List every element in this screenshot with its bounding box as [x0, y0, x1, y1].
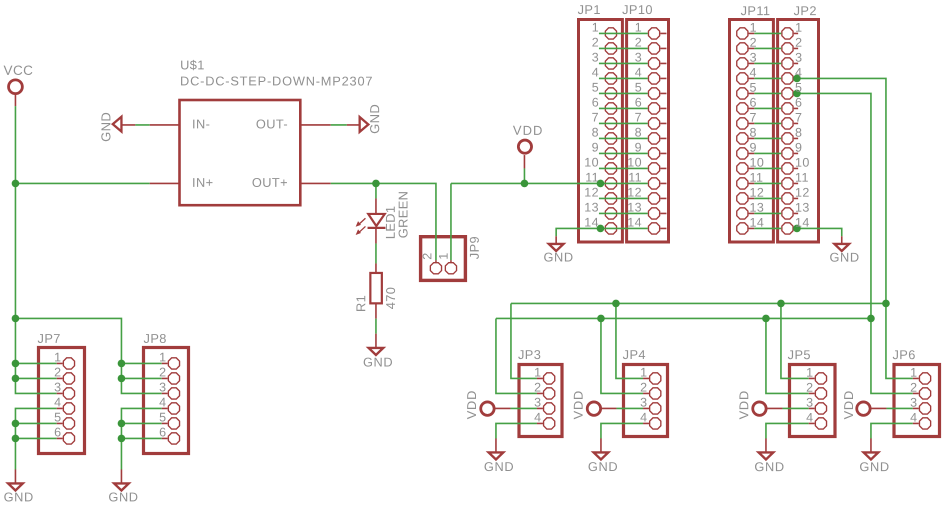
- wire JP4 pin2 riser: [601, 318, 643, 393]
- node VDD junction: [521, 180, 529, 188]
- wire OUT+ pin stub (red): [301, 182, 331, 184]
- pin JP6.1: [919, 373, 930, 384]
- wire GND stub below JP1 (red): [555, 236, 557, 244]
- wire VCC pin stub (red): [14, 93, 16, 106]
- pin JP1.9: [605, 148, 616, 159]
- pin JP10.11: [648, 178, 659, 189]
- wire VDD symbol to rail: [523, 168, 525, 183]
- svg-text:1: 1: [635, 21, 642, 35]
- pin JP2.9: [782, 148, 793, 159]
- pin JP2.2: [782, 43, 793, 54]
- svg-text:1: 1: [795, 21, 802, 35]
- pin JP10.6: [648, 103, 659, 114]
- svg-text:1: 1: [640, 366, 647, 380]
- pin JP11.5: [737, 88, 748, 99]
- svg-text:GND: GND: [98, 112, 113, 142]
- wire JP11.4 to JP2.4: [749, 77, 755, 79]
- connector JP9 box: [421, 237, 466, 281]
- node VCC-IN+ junction: [12, 180, 20, 188]
- wire VDD symbol stub (red): [523, 155, 525, 168]
- svg-text:2: 2: [534, 381, 541, 395]
- wire GND symbol stub at OUT- (red): [347, 124, 360, 126]
- svg-text:R1: R1: [353, 295, 368, 312]
- wire OUT- pin stub (red): [301, 124, 331, 126]
- wire LED cathode stub (red): [375, 228, 377, 244]
- pin JP1.12: [605, 193, 616, 204]
- svg-text:5: 5: [54, 410, 61, 424]
- pin JP10.4: [648, 73, 659, 84]
- wire JP1.6 to JP10.6: [599, 107, 648, 109]
- pin JP2.7: [782, 118, 793, 129]
- wire JP3 pin1 riser: [511, 303, 537, 378]
- svg-text:GND: GND: [363, 354, 393, 369]
- svg-text:3: 3: [806, 396, 813, 410]
- pin JP9.2: [430, 263, 441, 274]
- pin JP2.13: [782, 208, 793, 219]
- node JP8.5 junction: [118, 420, 126, 428]
- wire R1 bottom stub (red): [375, 303, 377, 318]
- svg-text:GND: GND: [754, 459, 784, 474]
- wire JP7 pin1 net: [15, 362, 56, 364]
- svg-text:9: 9: [750, 141, 757, 155]
- pin JP2.11: [782, 178, 793, 189]
- svg-text:VDD: VDD: [841, 390, 856, 419]
- pin JP7.5: [63, 418, 74, 429]
- pin JP10.1: [648, 28, 659, 39]
- pin JP5.3: [815, 403, 826, 414]
- pin JP11.1: [737, 28, 748, 39]
- wire VDD to JP6 pin3: [869, 407, 886, 409]
- pin JP8.3: [168, 388, 179, 399]
- wire JP9 pin1 to VDD rail: [450, 183, 452, 260]
- wire R1 to GND net: [375, 319, 377, 334]
- ground symbol under JP2: [834, 244, 849, 251]
- wire JP1.9 to JP10.9: [599, 152, 648, 154]
- svg-text:1: 1: [910, 366, 917, 380]
- node JP7.2 junction: [12, 375, 20, 383]
- wire LED branch: [375, 183, 377, 198]
- svg-text:8: 8: [750, 126, 757, 140]
- wire JP5 pin2 riser: [766, 318, 809, 393]
- pin JP8.6: [168, 433, 179, 444]
- svg-text:6: 6: [750, 96, 757, 110]
- connector JP1 box: [579, 20, 623, 243]
- svg-text:11: 11: [585, 171, 599, 185]
- pin JP1.11: [605, 178, 616, 189]
- svg-text:JP11: JP11: [741, 3, 771, 18]
- svg-text:GND: GND: [588, 459, 618, 474]
- node JP7.1 junction: [12, 360, 20, 368]
- pin JP1.6: [605, 103, 616, 114]
- pin JP8.5: [168, 418, 179, 429]
- pin JP3.1: [544, 373, 555, 384]
- wire JP8 pin3 stub: [162, 392, 168, 394]
- wire JP8 pin2 net: [121, 377, 161, 379]
- pin JP1.1: [605, 28, 616, 39]
- svg-text:2: 2: [54, 365, 61, 379]
- node JP8.6 junction: [118, 435, 126, 443]
- node JP2.14 junction: [793, 225, 801, 233]
- pin JP2.1: [782, 28, 793, 39]
- pin JP7.4: [63, 403, 74, 414]
- wire VCC vertical rail: [15, 106, 56, 393]
- pin JP8.2: [168, 373, 179, 384]
- svg-text:2: 2: [420, 252, 434, 259]
- wire JP7 GND stub (red): [14, 469, 16, 483]
- svg-text:OUT-: OUT-: [256, 116, 288, 131]
- svg-text:GND: GND: [367, 104, 382, 134]
- resistor R1 body: [370, 273, 382, 303]
- svg-text:5: 5: [750, 81, 757, 95]
- svg-text:OUT+: OUT+: [252, 175, 288, 190]
- svg-text:4: 4: [54, 395, 61, 409]
- node JP2.4 junction: [793, 75, 801, 83]
- svg-text:10: 10: [627, 156, 642, 170]
- svg-text:470: 470: [383, 287, 398, 310]
- supply VDD at JP3: [481, 402, 494, 415]
- connector JP6 box: [894, 365, 940, 437]
- supply VDD at JP5: [753, 402, 766, 415]
- pin JP1.13: [605, 208, 616, 219]
- wire JP8 pin1 net: [121, 362, 161, 364]
- node bus1-JP6 junction: [882, 300, 890, 308]
- svg-text:5: 5: [159, 410, 166, 424]
- wire JP8 pin4-6 ground rail: [121, 408, 161, 469]
- pin JP11.11: [737, 178, 748, 189]
- svg-text:GND: GND: [4, 489, 34, 504]
- svg-text:14: 14: [584, 216, 599, 230]
- svg-text:JP5: JP5: [788, 347, 811, 362]
- svg-text:JP2: JP2: [794, 3, 817, 18]
- pin JP1.8: [605, 133, 616, 144]
- ground symbol under JP6: [864, 452, 879, 459]
- wire JP1.11 to JP10.11: [599, 182, 648, 184]
- svg-text:2: 2: [592, 36, 599, 50]
- svg-text:IN+: IN+: [192, 175, 213, 190]
- wire GND stub below JP2 (red): [841, 236, 843, 244]
- LED LED1 GREEN symbol: [368, 214, 385, 226]
- wire JP9 pin1 stub (red): [450, 260, 452, 262]
- wire JP7 pin3 stub: [57, 392, 63, 394]
- svg-text:14: 14: [795, 216, 810, 230]
- svg-text:JP8: JP8: [144, 331, 167, 346]
- svg-text:GND: GND: [108, 489, 138, 504]
- svg-text:4: 4: [795, 66, 802, 80]
- ground symbol left of U$1: [113, 117, 122, 132]
- connector JP10 box: [627, 20, 669, 243]
- wire JP6 pin4 to GND: [871, 423, 913, 438]
- ground symbol under JP3: [489, 452, 504, 459]
- svg-text:1: 1: [806, 366, 813, 380]
- wire GND symbol stub under R1 (red): [375, 334, 377, 348]
- pin JP5.2: [815, 388, 826, 399]
- wire JP11.10 to JP2.10: [749, 167, 755, 169]
- pin JP11.13: [737, 208, 748, 219]
- pin JP10.9: [648, 148, 659, 159]
- pin JP4.3: [650, 403, 661, 414]
- connector JP2 box: [778, 20, 819, 243]
- svg-text:12: 12: [795, 186, 810, 200]
- ground symbol under JP8: [114, 483, 129, 490]
- pin JP7.2: [63, 373, 74, 384]
- svg-text:14: 14: [750, 216, 765, 230]
- wire JP11.1 to JP2.1: [749, 32, 755, 34]
- node bus2-JP6 junction: [867, 315, 875, 323]
- pin JP2.3: [782, 58, 793, 69]
- pin JP10.2: [648, 43, 659, 54]
- svg-text:8: 8: [635, 126, 642, 140]
- ground symbol under JP7: [8, 483, 23, 490]
- svg-text:13: 13: [750, 201, 765, 215]
- pin JP11.8: [737, 133, 748, 144]
- pin JP4.2: [650, 388, 661, 399]
- pin JP11.10: [737, 163, 748, 174]
- svg-text:4: 4: [592, 66, 599, 80]
- wire JP1 pin14 to GND: [556, 228, 599, 236]
- pin JP10.8: [648, 133, 659, 144]
- wire JP3 pin2 riser: [496, 318, 537, 393]
- svg-text:6: 6: [635, 96, 642, 110]
- svg-text:10: 10: [750, 156, 765, 170]
- ground symbol under JP5: [759, 452, 774, 459]
- pin JP2.5: [782, 88, 793, 99]
- pin JP10.3: [648, 58, 659, 69]
- svg-text:3: 3: [640, 396, 647, 410]
- svg-text:4: 4: [806, 411, 813, 425]
- svg-text:7: 7: [635, 111, 642, 125]
- wire JP4 pin4 to GND: [601, 423, 643, 438]
- svg-text:VDD: VDD: [464, 390, 479, 419]
- svg-text:10: 10: [795, 156, 810, 170]
- svg-text:2: 2: [635, 36, 642, 50]
- svg-text:9: 9: [795, 141, 802, 155]
- pin JP7.1: [63, 358, 74, 369]
- svg-text:13: 13: [584, 201, 599, 215]
- svg-text:10: 10: [584, 156, 599, 170]
- svg-text:3: 3: [159, 380, 166, 394]
- pin JP2.12: [782, 193, 793, 204]
- pin JP11.2: [737, 43, 748, 54]
- wire VDD rail to JP1 pin11: [451, 182, 605, 184]
- wire OUT+ net to JP9 pin2: [331, 183, 436, 260]
- wire IN- pin stub (red): [150, 124, 180, 126]
- svg-text:JP7: JP7: [38, 331, 61, 346]
- svg-text:4: 4: [159, 395, 166, 409]
- wire JP2 pin4 to JP6 pin1 (right bus): [797, 78, 912, 378]
- wire JP7 pin2 net: [15, 377, 56, 379]
- svg-text:9: 9: [635, 141, 642, 155]
- connector JP8 box: [144, 348, 189, 454]
- pin JP11.7: [737, 118, 748, 129]
- svg-text:2: 2: [910, 381, 917, 395]
- wire VDD to JP5 pin3: [766, 407, 783, 409]
- pin JP1.7: [605, 118, 616, 129]
- pin JP1.5: [605, 88, 616, 99]
- wire JP8 GND stub (red): [120, 469, 122, 483]
- pin JP10.10: [648, 163, 659, 174]
- node LED1 junction: [372, 180, 380, 188]
- wire JP1.10 to JP10.10: [599, 167, 648, 169]
- pin JP2.4: [782, 73, 793, 84]
- svg-text:2: 2: [795, 36, 802, 50]
- wire JP2 pin14 to GND: [797, 228, 841, 236]
- wire JP1.13 to JP10.13: [599, 212, 648, 214]
- svg-text:2: 2: [159, 365, 166, 379]
- node JP8.2 junction: [118, 375, 126, 383]
- wire JP11.6 to JP2.6: [749, 107, 755, 109]
- svg-text:GND: GND: [484, 459, 514, 474]
- LED emission arrows: [359, 218, 366, 224]
- svg-text:DC-DC-STEP-DOWN-MP2307: DC-DC-STEP-DOWN-MP2307: [180, 73, 373, 88]
- pin JP10.5: [648, 88, 659, 99]
- svg-text:7: 7: [592, 111, 599, 125]
- ground symbol under R1: [369, 348, 384, 355]
- pin JP1.3: [605, 58, 616, 69]
- wire JP7 pin4-6 ground rail: [15, 408, 56, 469]
- pin JP10.12: [648, 193, 659, 204]
- node bus2-JP5 junction: [762, 315, 770, 323]
- wire JP5 pin1 riser: [781, 303, 809, 378]
- pin JP10.13: [648, 208, 659, 219]
- wire JP11.2 to JP2.2: [749, 47, 755, 49]
- pin JP1.10: [605, 163, 616, 174]
- pin JP5.1: [815, 373, 826, 384]
- svg-text:JP9: JP9: [467, 236, 482, 259]
- svg-text:2: 2: [640, 381, 647, 395]
- wire JP1.1 to JP10.1: [599, 32, 648, 34]
- svg-text:1: 1: [592, 21, 599, 35]
- node bus2-JP4 junction: [597, 315, 605, 323]
- wire JP1.7 to JP10.7: [599, 122, 648, 124]
- svg-text:4: 4: [910, 411, 917, 425]
- pin JP6.3: [919, 403, 930, 414]
- pin JP11.4: [737, 73, 748, 84]
- svg-text:VDD: VDD: [736, 390, 751, 419]
- wire JP3 pin4 to GND: [496, 423, 537, 438]
- svg-text:3: 3: [795, 51, 802, 65]
- svg-text:2: 2: [806, 381, 813, 395]
- wire JP1.5 to JP10.5: [599, 92, 648, 94]
- svg-text:GREEN: GREEN: [396, 191, 411, 239]
- svg-text:3: 3: [592, 51, 599, 65]
- pin JP1.2: [605, 43, 616, 54]
- svg-text:3: 3: [750, 51, 757, 65]
- svg-text:14: 14: [627, 216, 642, 230]
- ground symbol under JP1: [549, 244, 564, 251]
- wire VCC to IN+ horizontal: [15, 182, 149, 184]
- wire VCC branch to JP8: [15, 318, 161, 393]
- wire JP11.7 to JP2.7: [749, 122, 755, 124]
- svg-text:6: 6: [159, 425, 166, 439]
- pin JP3.3: [544, 403, 555, 414]
- wire JP11.8 to JP2.8: [749, 137, 755, 139]
- pin JP8.4: [168, 403, 179, 414]
- svg-text:1: 1: [750, 21, 757, 35]
- svg-text:JP1: JP1: [578, 2, 601, 17]
- svg-text:VCC: VCC: [4, 63, 34, 78]
- supply VDD (top): [518, 140, 531, 153]
- pin JP2.6: [782, 103, 793, 114]
- pin JP6.4: [919, 418, 930, 429]
- node JP7.5 junction: [12, 420, 20, 428]
- svg-text:5: 5: [635, 81, 642, 95]
- svg-text:GND: GND: [859, 459, 889, 474]
- svg-text:1: 1: [534, 366, 541, 380]
- wire JP11.9 to JP2.9: [749, 152, 755, 154]
- wire JP1.14 to JP10.14: [599, 227, 648, 229]
- svg-text:4: 4: [640, 411, 647, 425]
- svg-text:7: 7: [795, 111, 802, 125]
- wire JP1.8 to JP10.8: [599, 137, 648, 139]
- connector JP11 box: [730, 20, 774, 243]
- pin JP11.12: [737, 193, 748, 204]
- svg-text:VDD: VDD: [571, 390, 586, 419]
- supply VCC: [9, 80, 23, 94]
- svg-text:5: 5: [592, 81, 599, 95]
- pin JP7.3: [63, 388, 74, 399]
- svg-text:3: 3: [635, 51, 642, 65]
- svg-text:12: 12: [584, 186, 599, 200]
- svg-text:12: 12: [627, 186, 642, 200]
- wire JP1.3 to JP10.3: [599, 62, 648, 64]
- connector JP3 box: [519, 365, 562, 437]
- node JP2.5 junction: [793, 90, 801, 98]
- ground symbol right of U$1: [360, 117, 369, 132]
- wire JP1.2 to JP10.2: [599, 47, 648, 49]
- pin JP5.4: [815, 418, 826, 429]
- svg-text:7: 7: [750, 111, 757, 125]
- svg-text:3: 3: [534, 396, 541, 410]
- svg-text:GND: GND: [829, 250, 859, 265]
- node JP1.14 junction: [597, 225, 605, 233]
- svg-text:6: 6: [795, 96, 802, 110]
- connector JP7 box: [39, 348, 85, 454]
- pin JP2.8: [782, 133, 793, 144]
- svg-text:JP3: JP3: [518, 347, 541, 362]
- svg-text:11: 11: [628, 171, 642, 185]
- node bus1-JP5 junction: [777, 300, 785, 308]
- wire JP1.12 to JP10.12: [599, 197, 648, 199]
- pin JP11.6: [737, 103, 748, 114]
- wire GND symbol stub at IN- (red): [121, 124, 135, 126]
- wire OUT- to GND net: [331, 124, 347, 126]
- pin JP11.3: [737, 58, 748, 69]
- svg-text:11: 11: [750, 171, 764, 185]
- wire JP11.14 to JP2.14: [749, 227, 755, 229]
- pin JP9.1: [445, 263, 456, 274]
- IC U$1 DC-DC-STEP-DOWN-MP2307 body: [180, 100, 301, 205]
- pin JP8.1: [168, 358, 179, 369]
- svg-text:3: 3: [54, 380, 61, 394]
- supply VDD at JP6: [857, 402, 870, 415]
- pin JP7.6: [63, 433, 74, 444]
- wire JP9 pin2 stub (red): [435, 260, 437, 262]
- wire VDD to JP4 pin3: [599, 407, 616, 409]
- svg-text:6: 6: [54, 425, 61, 439]
- pin JP6.2: [919, 388, 930, 399]
- svg-text:13: 13: [795, 201, 810, 215]
- svg-text:9: 9: [592, 141, 599, 155]
- svg-text:VDD: VDD: [513, 123, 543, 138]
- ground symbol under JP4: [594, 452, 609, 459]
- pin JP1.14: [605, 223, 616, 234]
- pin JP4.4: [650, 418, 661, 429]
- pin JP10.14: [648, 223, 659, 234]
- supply VDD at JP4: [587, 402, 600, 415]
- svg-text:8: 8: [795, 126, 802, 140]
- svg-text:6: 6: [592, 96, 599, 110]
- wire LED to R1 net: [375, 243, 377, 263]
